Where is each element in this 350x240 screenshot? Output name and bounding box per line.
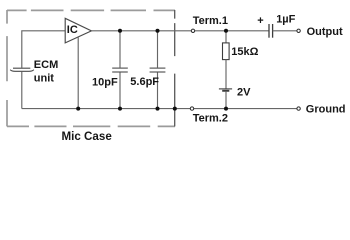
terminal Term.1 (191, 29, 194, 32)
svg-text:+: + (257, 15, 263, 27)
junction dot C2 bottom at bus (156, 107, 160, 111)
terminal Output (297, 29, 300, 32)
op-amp IC (65, 18, 91, 43)
wire ECM bottom lead (21, 72, 23, 109)
wire C2 bottom lead (157, 72, 159, 108)
svg-text:Output: Output (307, 26, 343, 38)
svg-text:unit: unit (34, 72, 54, 84)
electret capsule ECM (10, 68, 34, 71)
Mic Case dashed enclosure top edge (7, 9, 175, 11)
svg-text:ECM: ECM (34, 59, 58, 71)
wire Term.1 node to resistor (225, 31, 227, 43)
junction dot battery at bus (224, 107, 228, 111)
capacitor C2 5.6pF plates (150, 68, 166, 72)
wire C1 bottom lead (119, 72, 121, 108)
svg-text:Term.2: Term.2 (193, 113, 228, 125)
resistor 15k (223, 43, 230, 60)
wire 1uF to Output terminal (273, 30, 299, 32)
bottom bus wire (Term.2 / ground net) (22, 108, 299, 110)
label ECM unit (34, 59, 58, 84)
wire IC ground lead (77, 37, 79, 108)
svg-text:Mic Case: Mic Case (62, 130, 113, 143)
Mic Case dashed enclosure right edge (174, 10, 176, 126)
junction dot case shield at bus (173, 107, 177, 111)
junction dot IC ground at bus (76, 107, 80, 111)
svg-text:2V: 2V (237, 86, 251, 98)
wire C2 top lead (157, 31, 159, 68)
junction dot IC output / C1 top (118, 29, 122, 33)
svg-text:IC: IC (67, 24, 78, 36)
Mic Case dashed enclosure bottom edge (7, 125, 175, 127)
junction dot C1 bottom at bus (118, 107, 122, 111)
svg-text:Term.1: Term.1 (193, 15, 228, 27)
junction dot resistor top at Term.1 net (224, 29, 228, 33)
svg-text:5.6pF: 5.6pF (130, 76, 159, 88)
battery cell 2V (219, 89, 232, 91)
terminal Term.2 (190, 107, 193, 110)
wire battery to ground bus (225, 92, 227, 109)
svg-text:1µF: 1µF (276, 13, 295, 25)
wire ECM top lead to IC input (22, 31, 65, 68)
capacitor 1uF electrolytic plates (269, 24, 273, 38)
capacitor C1 10pF plates (112, 68, 128, 72)
wire IC output to 1uF capacitor (Term.1 net) (91, 30, 268, 32)
svg-text:15kΩ: 15kΩ (231, 46, 258, 58)
wire resistor to battery (225, 60, 227, 89)
wire C1 top lead (119, 31, 121, 68)
Mic Case dashed enclosure left edge (6, 10, 8, 126)
svg-text:Ground: Ground (306, 103, 346, 115)
junction dot C2 top (156, 29, 160, 33)
svg-text:10pF: 10pF (92, 77, 118, 89)
terminal Ground (297, 107, 300, 110)
